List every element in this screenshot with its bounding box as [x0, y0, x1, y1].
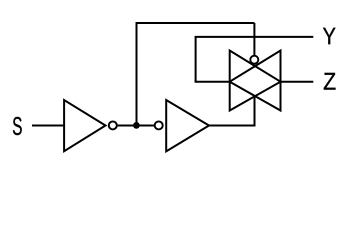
wire down to T1 pmos gate bubble: [253, 23, 255, 56]
wire Z output from T1 right terminal: [281, 81, 314, 83]
transmission gate T1 right triangle: [230, 51, 281, 111]
inverter U2 input bubble: [155, 121, 163, 129]
inverter U2 triangle: [166, 100, 209, 151]
wire U2 output to T1 nmos gate: [209, 125, 256, 127]
transmission gate T1 left triangle: [230, 51, 281, 111]
T1 pmos gate bubble: [250, 56, 258, 64]
node Z label: [324, 73, 336, 90]
wire Y output: [195, 36, 314, 38]
wire node A up: [136, 23, 138, 125]
wire T1 nmos gate down: [254, 97, 256, 126]
wire Y branch to T1 left terminal: [195, 81, 231, 83]
inverter U1 triangle: [64, 100, 105, 151]
wire top horizontal: [136, 22, 255, 24]
node S label: [13, 117, 22, 135]
wire Y branch vertical: [195, 37, 197, 82]
wire node A to U2 input bubble: [136, 125, 154, 127]
wire U1 output to node A: [118, 125, 137, 127]
wire S input: [32, 125, 64, 127]
node A junction dot: [133, 122, 140, 129]
inverter U1 output bubble: [109, 121, 117, 129]
node Y label: [323, 28, 336, 44]
